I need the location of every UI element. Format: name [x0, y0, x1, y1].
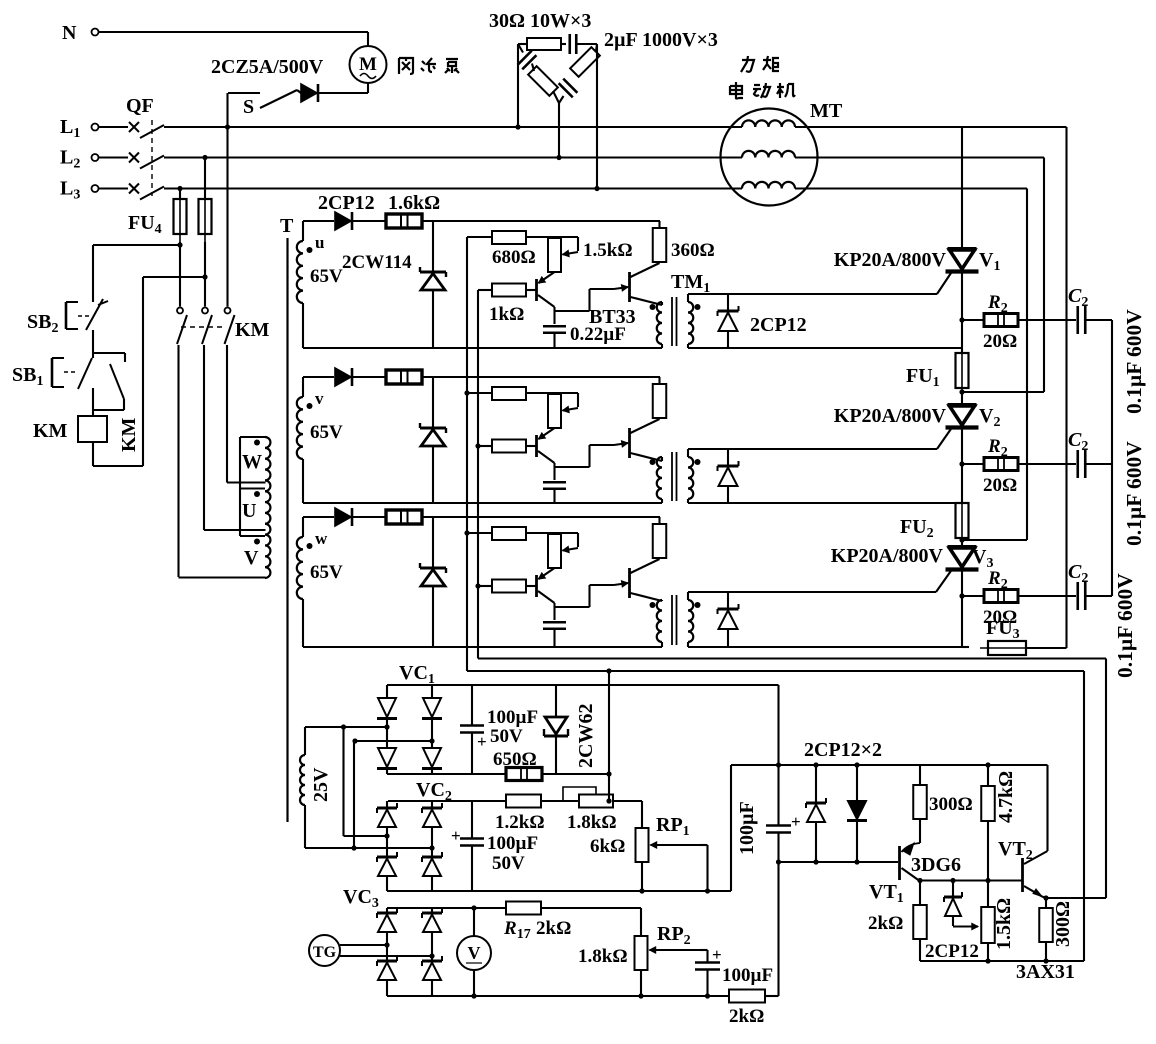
wire VC1 negative rail — [387, 773, 506, 775]
diode 2CP12 gate — [718, 449, 739, 503]
wire TM secondary bottom — [688, 502, 962, 504]
wire L1 right column — [1065, 127, 1067, 648]
potentiometer RP1 6kΩ — [590, 814, 700, 862]
zener diode 2CW62 — [544, 685, 597, 774]
potentiometer 1.5kΩ — [548, 237, 578, 272]
resistor 2kΩ (rail) — [729, 990, 765, 1028]
wire L3 phase — [164, 187, 1027, 189]
pulse transformer TM primary — [650, 302, 663, 348]
wire 25V bottom — [305, 845, 435, 850]
motor MT winding — [742, 151, 795, 158]
UJT BT33 — [614, 419, 662, 461]
diode 2CP12 gate — [718, 294, 739, 348]
wire TM secondary bottom — [688, 347, 962, 349]
wire VC2 negative rail — [387, 890, 731, 892]
transistor oscillator — [537, 428, 555, 463]
svg-text:+: + — [791, 812, 801, 831]
svg-text:U: U — [242, 500, 256, 522]
label 1.6kΩ — [388, 192, 440, 214]
svg-text:100µF: 100µF — [722, 965, 773, 986]
terminal L3 — [60, 178, 99, 203]
wire channel bottom rail — [303, 646, 662, 648]
label VC3 — [343, 886, 379, 911]
svg-text:KM: KM — [235, 319, 270, 341]
transformer T secondary v 65V — [297, 377, 343, 503]
resistor R2 20Ω — [983, 568, 1018, 628]
wire amplifier bottom rail — [920, 958, 1084, 963]
node L1-S junction — [225, 124, 230, 129]
wire SB2 to SB1 — [92, 330, 94, 353]
rectifier VC3 bridge right — [422, 908, 442, 996]
label 0.1µF 600V (1) — [1122, 309, 1146, 414]
resistor 680Ω — [467, 527, 555, 540]
resistor 1.6kΩ — [386, 214, 660, 228]
wire snubber common column — [1111, 320, 1113, 596]
wire RC network right leg — [594, 44, 599, 191]
wire L1 phase — [164, 126, 1067, 128]
label TM1 — [671, 271, 710, 296]
pushbutton SB2 (stop) — [27, 299, 108, 336]
capacitor 0.22µF — [543, 326, 566, 348]
wire V3 cathode — [961, 570, 963, 647]
zener diode 2CW114 — [420, 517, 446, 647]
label 0.1µF 600V (3) — [1113, 573, 1137, 678]
capacitor 2µF (left diag) — [518, 44, 537, 69]
wire VC1 positive rail — [387, 684, 779, 686]
svg-text:V: V — [244, 547, 259, 569]
svg-text:50V: 50V — [492, 853, 525, 874]
label 力矩 电动机 (torque motor) — [730, 56, 795, 99]
label 风冷泵 (air-cooling pump) — [399, 58, 459, 74]
svg-text:2CP12: 2CP12 — [925, 941, 979, 962]
pushbutton SB1 (start) — [12, 353, 93, 412]
wire VC1 ac input right — [352, 738, 434, 743]
wire bus control (1kΩ side) — [475, 290, 1106, 898]
capacitor C2 0.1µF — [1068, 429, 1088, 478]
label 2CP12 (gate diode) — [750, 314, 807, 336]
terminal N — [62, 22, 99, 44]
label 30Ω 10W×3 — [489, 10, 591, 32]
wire to snubber R2 — [959, 593, 984, 598]
label MT — [810, 100, 843, 122]
resistor 650Ω — [493, 749, 542, 781]
svg-text:KP20A/800V: KP20A/800V — [834, 249, 947, 271]
svg-text:50V: 50V — [490, 726, 523, 747]
wire L1 to QF — [99, 126, 129, 128]
wire RC network left leg — [515, 44, 520, 130]
svg-text:20Ω: 20Ω — [983, 331, 1017, 352]
diode 2CP12 clipper up — [806, 765, 826, 865]
wire C2 to common — [1086, 319, 1112, 321]
wire FU2 to V3 — [961, 538, 963, 547]
capacitor 0.22µF — [543, 482, 566, 503]
transformer T secondary u 65V — [297, 221, 343, 348]
wire VC1 rail down column — [776, 685, 781, 768]
svg-text:KM: KM — [33, 420, 68, 442]
label 2CP12×2 — [804, 739, 882, 761]
fuse FU2 — [900, 495, 969, 546]
svg-text:KM: KM — [118, 417, 140, 452]
wire C2 to common — [1086, 463, 1112, 465]
wire KM pole2 to U winding — [203, 345, 205, 530]
wire FU4-2 down — [202, 242, 207, 307]
svg-text:2CZ5A/500V: 2CZ5A/500V — [211, 56, 324, 78]
svg-text:100µF: 100µF — [736, 801, 758, 855]
pulse transformer TM core — [672, 595, 677, 645]
label VC1 — [399, 662, 435, 687]
pulse transformer TM primary — [650, 457, 663, 503]
wire KM pole3 to W winding — [226, 345, 228, 483]
fuse FU3 — [962, 617, 1034, 655]
svg-text:1.5kΩ: 1.5kΩ — [993, 898, 1015, 950]
wire to snubber R2 — [959, 317, 984, 322]
wire RP2 wiper to cap — [700, 950, 708, 963]
wire 1.2k to 1.8k — [541, 800, 579, 802]
torque motor MT circle — [721, 109, 818, 206]
terminal L2 — [60, 147, 99, 172]
svg-text:360Ω: 360Ω — [671, 240, 715, 261]
diode 2CZ5A — [301, 84, 318, 102]
transformer T core — [280, 215, 294, 822]
zener diode 2CW114 — [420, 377, 446, 503]
capacitor 2µF (top) — [570, 34, 597, 54]
svg-text:1kΩ: 1kΩ — [489, 304, 524, 325]
svg-text:3DG6: 3DG6 — [911, 854, 961, 876]
breaker QF label — [126, 95, 154, 117]
contactor KM main contact — [202, 308, 212, 345]
rectifier VC2 bridge right — [422, 801, 442, 891]
rectifier VC3 bridge left — [377, 908, 397, 996]
T primary winding U — [204, 489, 266, 531]
resistor 360Ω — [653, 221, 667, 263]
wire VT2 emitter node — [1043, 895, 1106, 900]
resistor 1kΩ — [478, 284, 537, 297]
wire VT2 collector — [1046, 765, 1048, 851]
resistor 1.6kΩ — [386, 370, 660, 384]
svg-text:2CW114: 2CW114 — [342, 252, 412, 273]
svg-text:0.1µF 600V: 0.1µF 600V — [1113, 573, 1137, 678]
svg-text:BT33: BT33 — [589, 306, 636, 328]
wire RC network mid leg — [556, 103, 561, 160]
fan motor M (风冷泵) — [350, 46, 387, 83]
wire 650Ω to bus — [542, 771, 612, 776]
capacitor 100µF (RP2) — [695, 945, 773, 999]
fuse FU1 — [906, 345, 969, 396]
transistor VT2 3AX31 — [998, 838, 1075, 983]
contactor KM aux contact — [93, 353, 125, 410]
wire collector node — [555, 445, 615, 480]
wire V2 gate — [688, 426, 953, 449]
fuse FU4-1 — [128, 186, 187, 242]
pulse transformer TM core — [672, 452, 677, 501]
resistor 300Ω (VT1) — [913, 765, 972, 843]
svg-text:65V: 65V — [310, 422, 343, 443]
label VC2 — [416, 779, 452, 804]
wire L3 right column — [1026, 189, 1028, 541]
wire collector node — [555, 585, 615, 620]
thyristor V1 KP20A/800V — [834, 249, 1001, 274]
diode 2CP12 clipper down — [847, 765, 867, 865]
UJT BT33 — [614, 263, 662, 305]
svg-text:MT: MT — [810, 100, 843, 122]
transistor VT1 3DG6 — [869, 843, 961, 906]
wire L2 phase — [164, 156, 1044, 158]
wire VC1 ac input left — [305, 724, 390, 729]
resistor 360Ω — [653, 377, 667, 419]
svg-text:w: w — [315, 529, 328, 548]
svg-text:3AX31: 3AX31 — [1016, 961, 1075, 983]
label 360Ω — [671, 240, 715, 261]
wire C2 to common — [1086, 595, 1112, 597]
svg-text:2kΩ: 2kΩ — [868, 913, 903, 934]
svg-text:2kΩ: 2kΩ — [536, 918, 571, 939]
resistor R2 20Ω — [983, 436, 1018, 496]
wire VC2 positive rail — [388, 800, 506, 802]
svg-text:25V: 25V — [310, 767, 332, 802]
svg-text:20Ω: 20Ω — [983, 475, 1017, 496]
wire 1.8k to RP1 — [606, 798, 642, 828]
tachogenerator TG — [309, 935, 435, 966]
wire V2 cathode — [961, 428, 963, 503]
resistor 30Ω (left diag) — [528, 64, 559, 104]
capacitor 100µF 50V (VC1) — [460, 685, 538, 774]
QF pole 1 contact — [129, 122, 164, 138]
wire V3 gate — [688, 568, 953, 592]
switch S — [228, 90, 301, 118]
label 1.5kΩ — [583, 240, 633, 261]
resistor 1kΩ — [478, 440, 537, 453]
capacitor 0.22µF — [543, 622, 566, 647]
potentiometer 1.5kΩ — [548, 533, 578, 568]
wire bus tap x609 — [608, 671, 610, 801]
motor MT winding — [742, 120, 795, 127]
svg-text:300Ω: 300Ω — [1052, 901, 1074, 947]
wire TM secondary bottom — [688, 646, 962, 648]
wire V1 anode from L1 — [961, 127, 963, 249]
svg-text:1.8kΩ: 1.8kΩ — [567, 812, 617, 833]
wire V1 cathode — [961, 272, 963, 352]
label 1kΩ — [489, 304, 524, 325]
svg-text:680Ω: 680Ω — [492, 247, 536, 268]
svg-text:M: M — [359, 54, 377, 75]
svg-text:v: v — [315, 389, 324, 408]
wire VT1 base — [779, 861, 899, 863]
wire VT1 emitter — [917, 878, 1022, 883]
svg-text:1.5kΩ: 1.5kΩ — [583, 240, 633, 261]
svg-text:2CP12×2: 2CP12×2 — [804, 739, 882, 761]
wire R2 to C2 — [1018, 463, 1076, 465]
pulse transformer TM secondary winding — [688, 294, 701, 348]
potentiometer RP2 1.8kΩ — [578, 923, 700, 970]
resistor R2 20Ω — [983, 292, 1018, 352]
wire L3 to QF — [99, 187, 129, 189]
wire channel bottom rail — [303, 347, 662, 349]
svg-text:+: + — [451, 826, 461, 845]
T primary winding V — [179, 536, 266, 578]
wire T primary star point — [239, 437, 241, 536]
wire 25V top to VC2 left — [344, 727, 390, 839]
QF linkage dashed — [151, 120, 153, 196]
svg-text:S: S — [243, 96, 254, 118]
svg-text:2kΩ: 2kΩ — [729, 1006, 764, 1027]
wire FU4-1 down — [177, 242, 182, 307]
resistor R17 2kΩ — [503, 902, 571, 943]
pulse transformer TM secondary winding — [688, 449, 701, 503]
wire KM coil return — [93, 277, 205, 466]
wire N to fan motor — [99, 32, 369, 46]
resistor 300Ω (VT2) — [1039, 898, 1074, 961]
wire R2 to C2 — [1018, 595, 1076, 597]
QF pole 2 contact — [129, 153, 164, 169]
rectifier VC1 bridge right — [422, 685, 442, 774]
resistor 1.5kΩ (VT2) — [981, 898, 1015, 961]
label 0.1µF 600V (2) — [1122, 441, 1146, 546]
wire L2 to QF — [99, 156, 129, 158]
resistor 1kΩ — [478, 580, 537, 593]
fuse FU4-2 — [199, 155, 212, 242]
QF pole 3 contact — [129, 184, 164, 200]
label 2CW114 — [342, 252, 412, 273]
wire rail to cap column — [765, 995, 779, 997]
svg-text:V: V — [468, 943, 481, 963]
thyristor V2 KP20A/800V — [834, 405, 1001, 430]
svg-text:100µF: 100µF — [487, 707, 538, 728]
voltmeter V — [457, 905, 491, 998]
resistor 2kΩ (VT1) — [868, 881, 927, 962]
wire node A to L2 — [959, 389, 1044, 394]
svg-text:2CP12: 2CP12 — [318, 192, 375, 214]
rectifier VC2 bridge left — [377, 801, 397, 891]
svg-text:2CP12: 2CP12 — [750, 314, 807, 336]
resistor 4.7kΩ — [981, 762, 1017, 907]
pulse transformer TM primary — [650, 600, 663, 647]
svg-text:+: + — [712, 945, 722, 964]
label 2µF 1000V×3 — [604, 29, 718, 51]
resistor 1.2kΩ — [495, 795, 545, 834]
wire V1 gate — [688, 270, 953, 294]
wire VC2 rail up to diode rail — [730, 765, 732, 891]
wire RP2 bottom — [638, 970, 643, 999]
T primary winding W — [227, 437, 270, 578]
svg-text:+: + — [477, 732, 487, 751]
svg-text:QF: QF — [126, 95, 154, 117]
wire channel bottom rail — [303, 502, 662, 504]
motor MT winding — [742, 182, 795, 189]
zener diode 2CW114 — [420, 221, 446, 348]
svg-text:65V: 65V — [310, 266, 343, 287]
svg-text:0.1µF 600V: 0.1µF 600V — [1122, 441, 1146, 546]
wire VC3 negative rail — [387, 995, 729, 997]
wire FU3 to L1 column — [1026, 647, 1067, 649]
transformer T secondary w 65V — [297, 517, 343, 647]
capacitor 100µF 50V (VC2) — [451, 801, 538, 891]
wire node B to L3 — [959, 537, 1027, 542]
wire L2 right column — [1043, 158, 1045, 393]
label 0.22µF — [570, 324, 626, 345]
capacitor C2 0.1µF — [1068, 561, 1088, 610]
svg-text:300Ω: 300Ω — [929, 794, 973, 815]
svg-text:2CW62: 2CW62 — [575, 704, 597, 768]
resistor 1.6kΩ — [386, 510, 660, 524]
contactor coil KM — [33, 412, 140, 452]
transformer T secondary 25V — [300, 727, 332, 848]
svg-text:1.8kΩ: 1.8kΩ — [578, 946, 628, 967]
wire R17 to RP2 — [541, 908, 641, 936]
diode 2CP12 channel — [303, 368, 387, 386]
svg-text:0.1µF 600V: 0.1µF 600V — [1122, 309, 1146, 414]
wire motor to diode — [319, 83, 368, 93]
svg-text:1.6kΩ: 1.6kΩ — [388, 192, 440, 214]
svg-text:KP20A/800V: KP20A/800V — [834, 405, 947, 427]
contactor KM main contact — [225, 308, 235, 345]
wire collector node — [555, 289, 615, 324]
svg-text:4.7kΩ: 4.7kΩ — [995, 771, 1017, 823]
capacitor 100µF (column) — [736, 765, 801, 996]
diode 2CP12 gate — [718, 592, 739, 647]
svg-text:N: N — [62, 22, 77, 44]
rectifier VC1 bridge left — [377, 685, 397, 774]
resistor 680Ω — [467, 387, 555, 400]
wire S to L1 — [226, 93, 228, 307]
svg-text:W: W — [242, 451, 262, 473]
wire FU1 to V2 — [961, 390, 963, 405]
potentiometer 1.5kΩ — [548, 393, 578, 428]
svg-text:KP20A/800V: KP20A/800V — [831, 545, 944, 567]
resistor 30Ω (top) — [518, 38, 566, 50]
pulse transformer TM core — [672, 297, 677, 346]
wire VC3 positive rail — [387, 907, 506, 909]
capacitor C2 0.1µF — [1068, 285, 1088, 334]
wire to snubber R2 — [959, 461, 984, 466]
pulse transformer TM secondary winding — [688, 592, 701, 647]
svg-text:T: T — [280, 215, 294, 237]
label 680Ω — [492, 247, 536, 268]
svg-text:u: u — [315, 233, 324, 252]
KM linkage dashed — [181, 319, 270, 341]
wire diode clipper rail — [731, 762, 1048, 767]
svg-text:6kΩ: 6kΩ — [590, 836, 625, 857]
svg-text:30Ω 10W×3: 30Ω 10W×3 — [489, 10, 591, 32]
wire RP1 bottom — [639, 862, 644, 894]
wire 25V bottom to VC1 right — [353, 741, 355, 848]
resistor 680Ω — [467, 231, 555, 244]
svg-text:2µF 1000V×3: 2µF 1000V×3 — [604, 29, 718, 51]
transistor oscillator — [537, 568, 555, 603]
contactor KM main contact — [177, 308, 187, 345]
diode 2CP12 (VT2 base) — [925, 881, 979, 963]
thyristor V3 KP20A/800V — [831, 545, 994, 571]
svg-text:TG: TG — [313, 944, 337, 961]
svg-text:20Ω: 20Ω — [983, 607, 1017, 628]
wire R2 to C2 — [1018, 319, 1076, 321]
resistor 30Ω (right diag) — [570, 44, 600, 77]
svg-text:1.2kΩ: 1.2kΩ — [495, 812, 545, 833]
capacitor 2µF (right diag) — [559, 79, 578, 103]
resistor 360Ω — [653, 517, 667, 559]
transistor oscillator — [537, 272, 555, 307]
UJT BT33 — [614, 559, 662, 601]
label 2CP12 — [318, 192, 375, 214]
diode 2CP12 channel — [303, 508, 387, 526]
wire control feed — [93, 245, 180, 302]
label 2CZ5A/500V — [211, 56, 324, 78]
wire KM pole1 to V winding — [177, 345, 179, 577]
svg-text:650Ω: 650Ω — [493, 749, 537, 770]
svg-text:65V: 65V — [310, 562, 343, 583]
svg-text:100µF: 100µF — [487, 833, 538, 854]
label BT33 — [589, 306, 636, 328]
diode 2CP12 channel — [303, 212, 387, 230]
